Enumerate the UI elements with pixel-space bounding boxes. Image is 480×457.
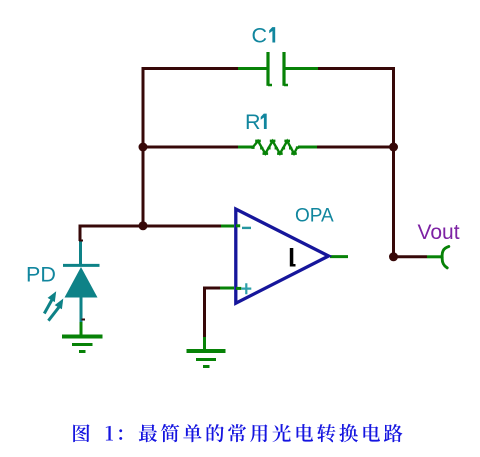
svg-text:C: C <box>252 24 268 48</box>
svg-text:PD: PD <box>26 263 56 287</box>
svg-text:OPA: OPA <box>295 206 334 227</box>
svg-text:R: R <box>245 110 261 134</box>
svg-text:Vout: Vout <box>418 221 460 244</box>
